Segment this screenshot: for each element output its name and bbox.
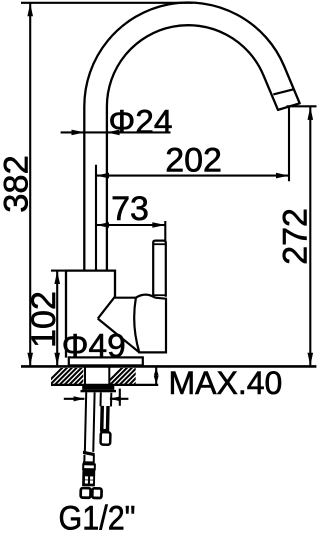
dim 202 arrow left: [96, 173, 109, 179]
handle housing: [115, 298, 166, 353]
dim phi24 arrow left: [107, 130, 120, 136]
nut lip: [81, 390, 117, 392]
dim 102 line: [56, 271, 58, 366]
dim 202 left extension line: [95, 165, 97, 270]
svg-text:202: 202: [165, 141, 222, 179]
dim 102 arrow up: [54, 271, 60, 284]
deck bottom line: [51, 384, 158, 386]
dim max40 arrow down: [154, 376, 159, 384]
svg-text:272: 272: [277, 208, 315, 265]
dim 73 arrow right: [152, 222, 165, 228]
dome cap: [136, 295, 155, 298]
dim 202 line: [96, 175, 289, 177]
dim 73 right extension line: [164, 221, 166, 240]
svg-text:102: 102: [25, 291, 63, 348]
right supply stub connector: [101, 393, 112, 407]
braid block: [82, 469, 95, 486]
hose collar segment: [83, 464, 95, 469]
shank dim arrow right: [110, 398, 128, 400]
shank dim right extension: [119, 389, 121, 406]
end nut right face: [92, 488, 101, 498]
dim 272 arrow down: [308, 353, 314, 366]
dim 73 arrow left: [96, 222, 109, 228]
right stub collar: [100, 429, 109, 432]
spout tube (gooseneck pipe): [84, 3, 299, 271]
hose band 2: [83, 461, 95, 464]
dim 202 arrow right: [276, 173, 289, 179]
svg-text:73: 73: [111, 190, 149, 228]
right stub double wall: [100, 406, 104, 430]
dim 382 arrow up: [27, 3, 33, 16]
body: [66, 271, 115, 358]
end nut left face: [81, 488, 91, 498]
lever bottom band: [153, 294, 166, 296]
dim 382 line: [29, 4, 31, 366]
base flange: [69, 357, 143, 365]
shank wall left: [84, 366, 86, 385]
wedge line upper: [98, 297, 115, 319]
right stub end cap: [101, 432, 111, 445]
dim 382 arrow down: [27, 353, 33, 366]
shank wall right: [108, 366, 110, 385]
lever handle: [153, 241, 166, 297]
dim phi24 line: [61, 131, 171, 133]
dim 73 line: [96, 224, 165, 226]
mounting nut: [82, 385, 114, 390]
wedge line lower: [98, 319, 140, 353]
svg-text:Φ49: Φ49: [62, 328, 126, 365]
dim 102 arrow down: [54, 353, 60, 366]
aerator band line: [273, 89, 294, 94]
dim 272 top extension line: [287, 105, 317, 107]
dim phi24 arrow right: [72, 130, 85, 136]
dim 382 top extension line: [21, 2, 193, 4]
dim 202 right extension line: [288, 106, 290, 181]
lever cap line: [153, 243, 166, 245]
hose crimp band: [83, 451, 95, 457]
deck top line: [21, 365, 316, 368]
svg-text:Φ24: Φ24: [109, 104, 173, 141]
deck hatch left: [40, 365, 159, 390]
shank dim arrow left: [64, 398, 85, 400]
dim 272 line: [309, 107, 311, 366]
dim 102 extension line: [51, 270, 65, 272]
hose mid walls: [84, 455, 94, 462]
svg-text:MAX.40: MAX.40: [169, 365, 283, 401]
svg-text:G1/2": G1/2": [59, 500, 136, 534]
dim 272 arrow up: [308, 107, 314, 120]
dim max40 mini line: [155, 367, 157, 384]
svg-text:382: 382: [0, 155, 36, 213]
under-deck hose group (slight tilt): [81, 392, 112, 498]
left hose walls: [85, 392, 95, 452]
dim max40 arrow up: [154, 367, 159, 375]
